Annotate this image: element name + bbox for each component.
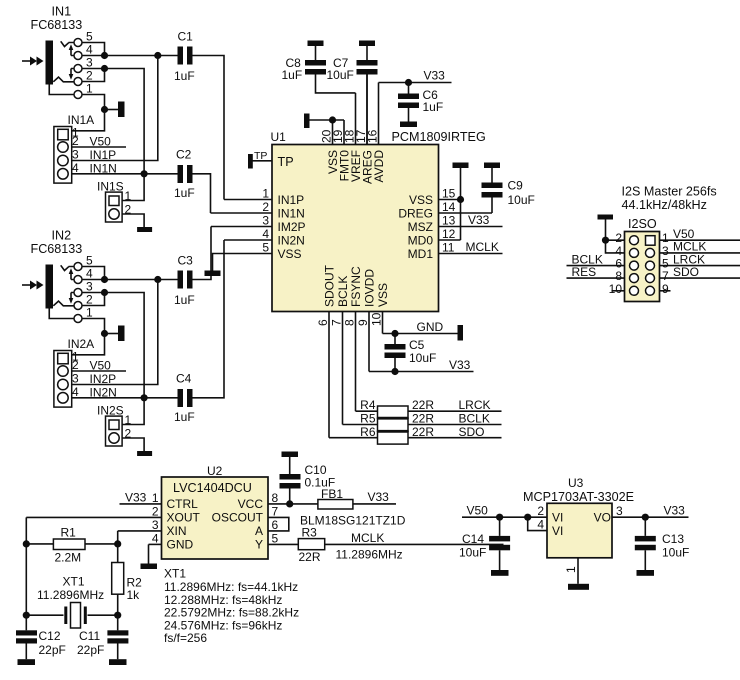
node jack IN1 ring junction [101, 65, 108, 72]
capacitor C10 0.1uF [280, 457, 336, 504]
svg-text:VSS: VSS [278, 247, 302, 261]
svg-text:1: 1 [86, 82, 93, 96]
svg-text:11.2896MHz: 11.2896MHz [37, 588, 104, 602]
jack IN1 pin 5 [69, 30, 105, 56]
jack IN1 pin 2 [69, 69, 105, 86]
wire VSS/MD0 tie [457, 168, 464, 240]
U2 pin 3 XIN [118, 518, 187, 544]
svg-text:5: 5 [272, 531, 279, 545]
I2SO pin 8 RES [567, 265, 625, 283]
svg-text:GND: GND [417, 320, 444, 334]
svg-text:C3: C3 [178, 254, 194, 268]
svg-text:SDO: SDO [459, 425, 485, 439]
capacitor C9 10uF [482, 168, 535, 213]
svg-text:4: 4 [86, 267, 93, 281]
jack IN1 pin 1 [49, 82, 104, 110]
svg-text:XT1: XT1 [63, 575, 85, 589]
SEC-U2 [16, 452, 504, 666]
op-amp U1 PCM1809IRTEG body [271, 130, 486, 312]
crystal XT1 [26, 575, 117, 629]
connector IN1S [97, 180, 124, 223]
pin 14 DREG right [398, 200, 492, 220]
svg-text:4: 4 [86, 43, 93, 57]
resistor R3 22R [298, 526, 503, 565]
ground IN2 sleeve [118, 326, 125, 342]
U3 pin 2 VI [462, 504, 563, 525]
svg-text:MCLK: MCLK [351, 531, 384, 545]
svg-text:C11: C11 [79, 629, 100, 643]
svg-text:V33: V33 [664, 504, 686, 518]
ground C6 [400, 122, 417, 128]
svg-text:RES: RES [572, 265, 597, 279]
connector IN1A pin 2 V50 [72, 134, 126, 149]
svg-text:1uF: 1uF [174, 410, 195, 424]
resistor R6 22R [329, 425, 502, 444]
jack IN2 tip contact [61, 265, 69, 270]
svg-text:4: 4 [152, 531, 159, 545]
jack IN1 tip switch arrow [69, 44, 74, 55]
svg-text:22pF: 22pF [77, 643, 104, 657]
svg-text:8: 8 [272, 491, 279, 505]
jack IN1 pin 3 [71, 56, 105, 73]
svg-text:9: 9 [356, 319, 370, 326]
svg-text:2: 2 [152, 504, 159, 518]
ground C7 [359, 41, 375, 47]
svg-text:8: 8 [343, 319, 357, 326]
node jack IN2 ring junction [101, 289, 108, 296]
pin 15 VSS right [409, 187, 461, 207]
svg-text:IN2: IN2 [52, 229, 72, 243]
svg-text:1: 1 [262, 187, 269, 201]
node IN1N junction [141, 170, 148, 177]
svg-text:VCC: VCC [238, 497, 264, 511]
U3 pin 4 VI [528, 517, 564, 538]
capacitor C1 1uF [174, 30, 224, 200]
ground pin 15 [453, 163, 469, 169]
I2SO pin 9 stub [660, 282, 671, 296]
svg-text:V33: V33 [424, 69, 446, 83]
svg-text:10uF: 10uF [662, 546, 689, 560]
jack IN2 sleeve bar [46, 265, 54, 309]
resistor R4 22R [356, 398, 502, 418]
pin 4 IN2N [224, 227, 305, 247]
svg-text:10uF: 10uF [459, 546, 486, 560]
svg-text:2: 2 [125, 203, 132, 217]
pin 1 IN1P [224, 187, 304, 207]
pin 5 VSS [213, 241, 302, 271]
ground C10 [282, 452, 299, 458]
svg-text:DREG: DREG [398, 206, 433, 220]
I2SO pin 1 V50 [660, 227, 740, 245]
ground C9 [484, 163, 500, 169]
svg-text:2: 2 [262, 200, 269, 214]
IC U2 LVC1404DCU body [162, 464, 269, 559]
SEC-TOPCAPS [282, 41, 452, 145]
svg-text:10: 10 [370, 312, 384, 326]
connector IN2A pin 1 wire [72, 334, 105, 364]
svg-text:U2: U2 [207, 464, 223, 478]
pin 13 MSZ right V33 [408, 213, 503, 234]
I2SO pin 7 SDO [660, 265, 740, 283]
ground C12 [18, 659, 36, 665]
resistor R5 22R [343, 412, 502, 432]
svg-text:3: 3 [72, 372, 79, 386]
svg-text:2.2M: 2.2M [55, 551, 82, 565]
jack IN2 pin 5 [69, 254, 105, 280]
node XIN/R1/R2 junction [114, 540, 121, 547]
wire IN1 ring to C2 column [105, 69, 145, 174]
U3 pin 3 VO V33 [594, 504, 689, 525]
svg-text:10uF: 10uF [508, 193, 535, 207]
capacitor C6 1uF [398, 83, 443, 122]
wire IN2 tip to C3 [105, 279, 178, 281]
svg-text:2: 2 [125, 427, 132, 441]
svg-text:PCM1809IRTEG: PCM1809IRTEG [392, 130, 486, 144]
svg-text:XIN: XIN [167, 524, 187, 538]
svg-text:3: 3 [616, 504, 623, 518]
wire V33 row below U1 [369, 358, 474, 375]
svg-text:AVDD: AVDD [372, 150, 386, 183]
jack IN1 input arrow [22, 57, 44, 66]
jack IN2 ring contact [53, 301, 68, 306]
pin 12 MD0 right [408, 227, 461, 247]
svg-text:R4: R4 [360, 398, 376, 412]
svg-text:1: 1 [125, 413, 132, 427]
svg-text:IM2P: IM2P [278, 220, 306, 234]
svg-text:1uF: 1uF [174, 69, 195, 83]
node jack IN2 tip junction [101, 276, 108, 283]
svg-text:6: 6 [316, 319, 330, 326]
connector IN1A pin 3 IN1P [72, 56, 158, 163]
U2 pin 8 VCC [238, 491, 318, 511]
pin 10 VSS bottom [370, 283, 391, 334]
svg-text:6: 6 [272, 518, 279, 532]
svg-text:1: 1 [125, 189, 132, 203]
svg-text:7: 7 [272, 504, 279, 518]
wire R5/R6 divider [378, 430, 409, 433]
node IN2N junction [141, 394, 148, 401]
connector IN2 FC68133 label [31, 229, 83, 257]
svg-text:IN1P: IN1P [90, 148, 117, 162]
I2SO pin 5 LRCK [660, 253, 740, 271]
svg-text:MSZ: MSZ [408, 220, 433, 234]
pin 3 IM2P [211, 214, 306, 234]
svg-text:22R: 22R [299, 550, 321, 564]
wire IN1 tip to C1 [105, 55, 178, 57]
svg-text:7: 7 [330, 319, 344, 326]
pin 8 FSYNC bottom [343, 266, 364, 411]
ground I2SO [598, 215, 614, 220]
ground pin5 [205, 271, 221, 277]
jack IN2 pin 1 [49, 306, 104, 334]
svg-text:V33: V33 [125, 491, 147, 505]
svg-text:FSYNC: FSYNC [349, 266, 363, 307]
svg-text:V33: V33 [368, 490, 390, 504]
svg-text:3: 3 [86, 280, 93, 294]
svg-text:C5: C5 [409, 338, 425, 352]
capacitor C5 10uF [385, 334, 437, 372]
svg-text:2: 2 [86, 293, 93, 307]
node jack IN1 tip junction [101, 52, 108, 59]
pin 6 SDOUT bottom [316, 264, 337, 437]
ground IN1 sleeve [118, 102, 125, 118]
svg-text:C2: C2 [176, 148, 192, 162]
svg-text:4: 4 [537, 518, 544, 532]
pin 20 VSS top [320, 120, 341, 174]
U2 pin 5 Y [255, 531, 298, 551]
svg-text:IN2N: IN2N [278, 233, 305, 247]
svg-text:BCLK: BCLK [336, 276, 350, 307]
svg-text:3: 3 [152, 518, 159, 532]
svg-text:MCP1703AT-3302E: MCP1703AT-3302E [523, 490, 634, 504]
wire R4/R5 divider [378, 417, 409, 420]
U2 pin 4 GND [149, 531, 194, 563]
svg-text:LVC1404DCU: LVC1404DCU [173, 481, 252, 495]
svg-text:VSS: VSS [409, 193, 433, 207]
resistor R2 1k [112, 544, 142, 615]
wire V33 AVDD [379, 69, 452, 87]
jack IN1 ring contact [53, 77, 68, 82]
svg-text:SDO: SDO [673, 265, 699, 279]
svg-text:C12: C12 [39, 629, 61, 643]
svg-text:1uF: 1uF [174, 186, 195, 200]
svg-text:10uF: 10uF [409, 351, 436, 365]
SEC-U1 [205, 75, 535, 445]
svg-text:XT1: XT1 [164, 567, 186, 581]
jack IN1 pin 4 [71, 43, 105, 60]
svg-text:1k: 1k [127, 588, 141, 602]
I2SO pin 3 MCLK [660, 240, 740, 258]
capacitor C2 1uF [144, 148, 210, 214]
svg-text:2: 2 [72, 358, 79, 372]
svg-text:3: 3 [262, 214, 269, 228]
SEC-I2SO [567, 185, 740, 302]
svg-text:1uF: 1uF [174, 293, 195, 307]
connector IN2A pin 3 IN2P [72, 280, 158, 387]
I2SO pin 2 wire [606, 231, 625, 245]
svg-text:U3: U3 [568, 476, 584, 490]
resistor R1 2.2M [26, 526, 117, 565]
svg-text:Y: Y [255, 538, 263, 552]
svg-text:XOUT: XOUT [167, 511, 201, 525]
svg-text:9: 9 [662, 282, 669, 296]
connector IN1A [54, 113, 94, 183]
test point TP [248, 150, 267, 169]
svg-text:C9: C9 [508, 179, 524, 193]
pin 17 AREG top [354, 75, 375, 185]
node VO/C13 junction [642, 514, 649, 521]
svg-text:22R: 22R [412, 412, 434, 426]
connector IN2S [97, 404, 124, 447]
svg-text:V50: V50 [90, 135, 112, 149]
ground U3 pin 1 [568, 584, 589, 590]
svg-text:5: 5 [86, 30, 93, 44]
connector IN2A [54, 337, 94, 407]
svg-text:FB1: FB1 [321, 487, 343, 501]
svg-text:IN2N: IN2N [90, 385, 117, 399]
jack IN2 ring switch arrow [69, 293, 74, 304]
pin 18 VREF top [343, 93, 364, 182]
svg-text:R1: R1 [61, 526, 77, 540]
SEC-IN2 [22, 227, 224, 457]
pin 2 IN1N [211, 200, 305, 220]
svg-text:VSS: VSS [376, 283, 390, 307]
U2 pin 1 CTRL V33 [120, 491, 199, 512]
node IN2 sleeve ground junction [101, 330, 118, 337]
pin 16 AVDD top [366, 83, 387, 183]
svg-text:1: 1 [564, 566, 578, 573]
capacitor C14 10uF [459, 517, 510, 570]
svg-text:C4: C4 [176, 372, 192, 386]
svg-text:1: 1 [152, 491, 159, 505]
svg-text:IN1N: IN1N [278, 206, 305, 220]
U2 pin 7 OSCOUT loop to pin 6 A [212, 504, 289, 538]
IC U3 MCP1703AT-3302E body [523, 476, 634, 558]
svg-text:V33: V33 [468, 213, 490, 227]
svg-text:2: 2 [537, 504, 544, 518]
capacitor C12 22pF [16, 615, 66, 659]
svg-text:FC68133: FC68133 [31, 242, 83, 256]
pin 9 IOVDD bottom [356, 269, 377, 372]
connector IN1A pin 4 IN1N [72, 161, 144, 176]
jack IN1 ring switch arrow [69, 69, 74, 80]
capacitor C13 10uF [635, 517, 690, 570]
connector IN1A pin 1 wire [72, 110, 105, 140]
svg-text:2: 2 [86, 69, 93, 83]
svg-text:3: 3 [86, 56, 93, 70]
ground C8 [308, 41, 324, 47]
svg-text:CTRL: CTRL [167, 497, 199, 511]
svg-text:2: 2 [72, 134, 79, 148]
connector IN2A pin 2 V50 [72, 358, 126, 373]
svg-text:1uF: 1uF [282, 68, 303, 82]
jack IN2 pin 3 [71, 280, 105, 297]
svg-text:C1: C1 [178, 30, 194, 44]
node IN2P tap [154, 276, 161, 283]
ground GND net [458, 325, 464, 341]
svg-text:VI: VI [552, 511, 563, 525]
pin 11 MD1 right MCLK [408, 240, 503, 261]
connector I2SO header [625, 217, 660, 302]
svg-text:fs/f=256: fs/f=256 [164, 631, 207, 645]
ground IN2S [137, 451, 152, 456]
svg-text:3: 3 [72, 148, 79, 162]
svg-text:11.2896MHz: 11.2896MHz [336, 548, 403, 562]
jack IN2 tip switch arrow [69, 268, 74, 279]
svg-text:10uF: 10uF [327, 68, 354, 82]
I2SO pin 4 wire [606, 219, 625, 258]
svg-text:44.1kHz/48kHz: 44.1kHz/48kHz [622, 198, 707, 212]
svg-text:IN2P: IN2P [90, 372, 117, 386]
svg-text:TP: TP [278, 155, 294, 169]
svg-text:BCLK: BCLK [459, 412, 490, 426]
svg-text:IOVDD: IOVDD [363, 269, 377, 307]
I2SO pin 6 BCLK [567, 253, 625, 271]
svg-text:V33: V33 [449, 358, 471, 372]
node crystal right junction [114, 612, 121, 619]
node XOUT/R1 junction [23, 540, 30, 547]
node V50/C14 junction [496, 514, 503, 521]
ground pins 20/19 [304, 114, 344, 129]
node IN1P tap [154, 52, 161, 59]
svg-text:15: 15 [442, 187, 456, 201]
jack IN1 sleeve bar [46, 41, 54, 85]
svg-text:LRCK: LRCK [459, 398, 491, 412]
svg-text:VI: VI [552, 524, 563, 538]
svg-text:FC68133: FC68133 [31, 18, 83, 32]
label XT1 frequency table [164, 567, 299, 646]
capacitor C7 10uF [327, 46, 378, 145]
node crystal left junction [23, 612, 30, 619]
ground U2 [141, 564, 158, 570]
svg-text:U1: U1 [271, 130, 287, 144]
svg-text:MD1: MD1 [408, 247, 434, 261]
svg-text:V50: V50 [467, 504, 489, 518]
svg-text:4: 4 [262, 227, 269, 241]
svg-text:SDOUT: SDOUT [323, 264, 337, 307]
svg-text:MCLK: MCLK [466, 240, 499, 254]
U2 pin 2 XOUT [26, 504, 200, 524]
connector IN2A pin 4 IN2N [72, 385, 144, 400]
connector IN1 FC68133 label [31, 5, 83, 33]
jack IN2 pin 2 [69, 293, 105, 310]
pin 19 FMT0 top [331, 120, 352, 181]
SEC-IN1 [22, 5, 224, 233]
ferrite bead FB1 [300, 487, 406, 528]
ground IN1S [137, 227, 152, 232]
jack IN1 tip contact [61, 41, 69, 46]
connector IN2S pin 1 wire [122, 398, 144, 427]
svg-text:12: 12 [442, 227, 456, 241]
svg-text:IN1P: IN1P [278, 193, 305, 207]
node U2 VCC junction [286, 500, 293, 507]
svg-text:VO: VO [594, 511, 611, 525]
wire TP to U1 [253, 155, 294, 169]
ground C11 [109, 659, 127, 665]
svg-text:GND: GND [167, 538, 194, 552]
svg-text:I2S Master 256fs: I2S Master 256fs [622, 185, 717, 199]
svg-text:4: 4 [72, 161, 79, 175]
svg-text:R3: R3 [302, 526, 318, 540]
I2SO pin 10 stub [609, 282, 625, 296]
svg-text:OSCOUT: OSCOUT [212, 511, 264, 525]
connector IN1S pin 2 wire [122, 203, 144, 228]
svg-text:5: 5 [262, 241, 269, 255]
svg-text:5: 5 [86, 254, 93, 268]
svg-text:V50: V50 [90, 359, 112, 373]
svg-text:1: 1 [86, 306, 93, 320]
svg-text:I2SO: I2SO [628, 217, 657, 231]
U3 pin 1 ground [564, 558, 578, 584]
svg-text:IN1N: IN1N [90, 161, 117, 175]
wire GND net [383, 320, 458, 337]
pin 7 BCLK bottom [330, 276, 351, 425]
connector IN1S pin 1 wire [122, 174, 144, 203]
capacitor C8 1uF [282, 46, 356, 93]
wire IN2 ring to C4 column [105, 293, 145, 398]
jack IN2 input arrow [22, 281, 44, 290]
node I2SO ground junction [602, 237, 609, 244]
svg-text:R5: R5 [360, 412, 376, 426]
svg-text:MD0: MD0 [408, 233, 434, 247]
ground C14 [491, 570, 509, 576]
svg-text:C13: C13 [662, 532, 684, 546]
svg-text:10: 10 [609, 282, 623, 296]
connector IN2S pin 2 wire [122, 427, 144, 452]
svg-text:1uF: 1uF [423, 100, 444, 114]
svg-text:22R: 22R [412, 425, 434, 439]
capacitor C3 1uF [174, 227, 211, 308]
